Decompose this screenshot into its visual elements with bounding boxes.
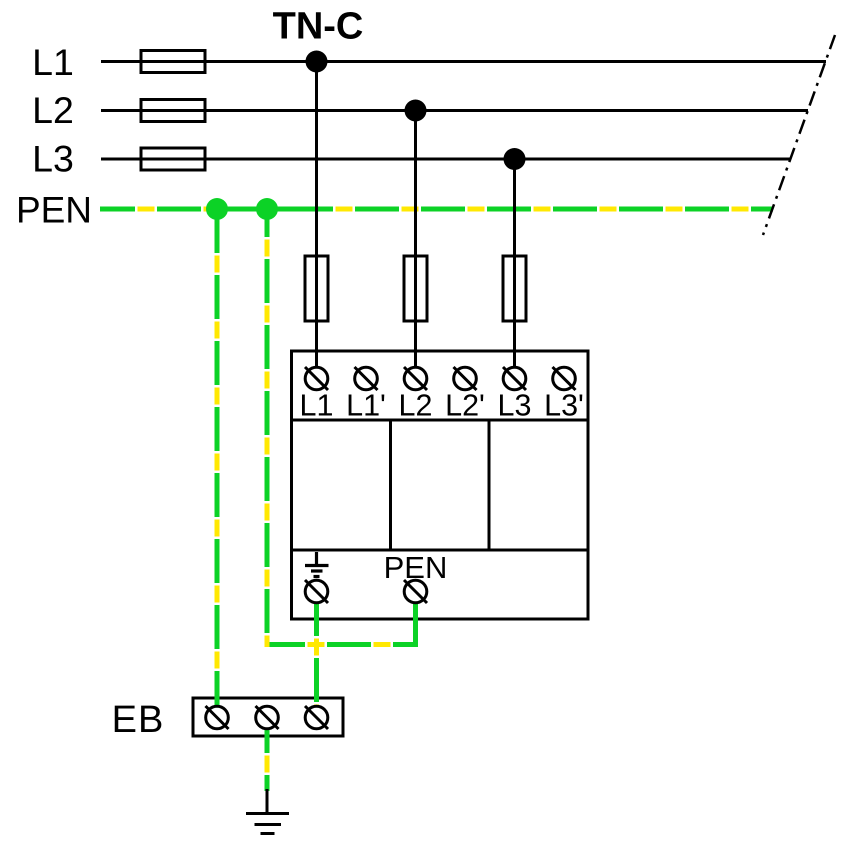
terminal L2 xyxy=(404,367,427,390)
svg-text:EB: EB xyxy=(112,699,165,741)
SPD module divider 2 xyxy=(488,420,491,550)
wire PEN to SPD PEN terminal xyxy=(267,209,416,647)
svg-text:L2: L2 xyxy=(32,89,74,131)
svg-text:L2': L2' xyxy=(445,389,485,423)
node L2 junction xyxy=(405,100,427,122)
node PEN junction 1 xyxy=(206,198,228,220)
wire PEN bus (green/yellow) xyxy=(100,207,773,212)
terminal L3 xyxy=(503,367,526,390)
terminal L1 xyxy=(305,367,328,390)
wire PEN bus green patch after junction 2 xyxy=(272,207,294,212)
terminal EB1 xyxy=(206,706,229,729)
wire L1 bus xyxy=(101,60,826,63)
fuse F4 xyxy=(305,256,328,321)
svg-text:L3: L3 xyxy=(498,389,532,423)
node L1 junction xyxy=(306,51,328,73)
wire EB to earth xyxy=(265,729,270,791)
svg-text:TN-C: TN-C xyxy=(273,6,364,48)
fuse F3 xyxy=(141,148,205,170)
node PEN junction 2 xyxy=(256,198,278,220)
wire L2 drop xyxy=(414,111,417,369)
terminal EB3 xyxy=(305,706,328,729)
SPD module divider 1 xyxy=(389,420,392,550)
wire SPD ground terminal to EB xyxy=(314,602,319,706)
terminal PEN (SPD) xyxy=(404,580,427,603)
svg-text:L1: L1 xyxy=(32,41,74,83)
fuse F2 xyxy=(141,100,205,122)
terminal L3' xyxy=(553,367,576,390)
SPD divider below terminal labels xyxy=(292,419,589,422)
wire L3 bus xyxy=(101,158,791,161)
svg-text:L3': L3' xyxy=(544,389,584,423)
svg-text:PEN: PEN xyxy=(16,190,92,231)
wire L2 bus xyxy=(101,109,808,112)
wire L3 drop xyxy=(513,159,516,368)
EB terminal block xyxy=(193,698,343,736)
terminal L1' xyxy=(355,367,378,390)
node L3 junction xyxy=(504,148,526,170)
svg-text:L1': L1' xyxy=(346,389,386,423)
wire L1 drop xyxy=(315,62,318,369)
fuse F5 xyxy=(404,256,427,321)
terminal EB2 xyxy=(256,706,279,729)
break line (continuation mark) xyxy=(763,35,835,235)
ground symbol (SPD internal) xyxy=(305,552,329,577)
fuse F6 xyxy=(503,256,526,321)
svg-text:L3: L3 xyxy=(32,138,74,180)
svg-text:L1: L1 xyxy=(300,389,334,423)
wire PEN to EB (left vertical) xyxy=(215,209,220,706)
terminal L2' xyxy=(454,367,477,390)
SPD divider above bottom band xyxy=(292,549,589,552)
terminal PE (SPD ground) xyxy=(305,580,328,603)
ground (earth electrode) xyxy=(246,789,289,834)
fuse F1 xyxy=(141,51,205,73)
SPD box U1 xyxy=(292,351,589,619)
svg-text:L2: L2 xyxy=(399,389,433,423)
